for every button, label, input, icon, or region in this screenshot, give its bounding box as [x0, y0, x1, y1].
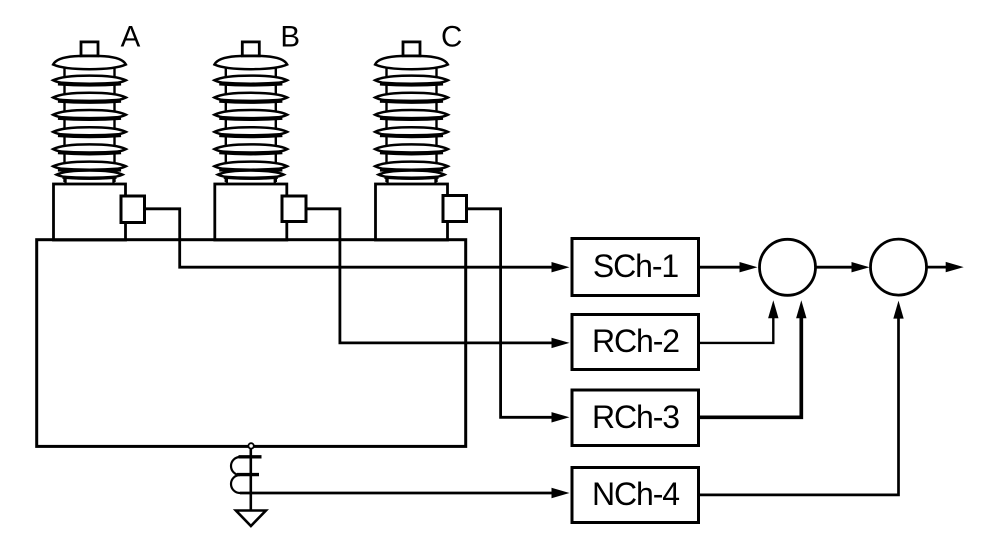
- wire from CT to block NCh-4: [240, 492, 553, 495]
- channel block RCh-2: [572, 315, 699, 370]
- svg-text:RCh-3: RCh-3: [592, 399, 679, 435]
- measuring tap sensor box on bushing B: [282, 196, 306, 222]
- output arrow: [946, 262, 964, 272]
- channel block NCh-4: [572, 468, 699, 523]
- measuring tap sensor box on bushing A: [121, 196, 145, 223]
- svg-text:B: B: [280, 20, 300, 53]
- pedestal base of bushing C: [376, 184, 448, 240]
- earth ground arrow: [236, 511, 266, 527]
- measuring tap sensor box on bushing C: [443, 196, 467, 222]
- ground lead node on tank bottom: [248, 443, 253, 448]
- ground conductor: [250, 449, 253, 511]
- output wire from adder 2: [927, 266, 948, 269]
- pedestal base of bushing B: [215, 184, 287, 240]
- arrow into adder 1 left: [740, 262, 758, 272]
- arrow RCh-2 into adder 1 bottom: [768, 300, 778, 318]
- wire from sensor C to block RCh-3: [467, 209, 554, 417]
- CT winding arc upper: [231, 457, 240, 475]
- adder circle 1: [760, 239, 816, 295]
- svg-text:C: C: [441, 20, 462, 53]
- channel block RCh-3: [572, 390, 699, 446]
- arrow RCh-3 into adder 1 bottom: [796, 300, 806, 318]
- bushing insulator A: shed stack: [53, 42, 126, 185]
- pedestal base of bushing A: [54, 184, 126, 240]
- wire from sensor A to block SCh-1: [145, 209, 554, 267]
- wire from sensor B to block RCh-2: [306, 209, 553, 343]
- arrow into NCh-4: [552, 488, 570, 498]
- svg-text:RCh-2: RCh-2: [592, 323, 679, 359]
- arrow into RCh-3: [552, 412, 570, 422]
- apparatus tank body: [37, 240, 466, 447]
- bushing insulator B: shed stack: [214, 42, 287, 185]
- arrow into RCh-2: [552, 338, 570, 348]
- adder circle 2: [871, 239, 927, 295]
- wire SCh-1 output to adder 1: [699, 266, 743, 269]
- arrow into adder 2 left: [852, 262, 870, 272]
- wire adder 1 to adder 2: [816, 266, 855, 269]
- arrow NCh-4 into adder 2 bottom: [893, 301, 903, 319]
- CT winding tick lower: [237, 473, 259, 476]
- svg-text:NCh-4: NCh-4: [592, 476, 679, 512]
- CT winding arc lower: [231, 475, 240, 493]
- wire RCh-3 output up to adder 1: [699, 316, 802, 417]
- wire NCh-4 output up to adder 2: [699, 316, 899, 495]
- channel block SCh-1: [572, 239, 699, 296]
- arrow into SCh-1: [552, 262, 570, 272]
- svg-text:SCh-1: SCh-1: [593, 248, 679, 284]
- wire RCh-2 output up to adder 1: [699, 316, 774, 343]
- CT winding tick upper: [239, 455, 262, 458]
- bushing insulator C: shed stack: [375, 42, 448, 185]
- svg-text:A: A: [121, 20, 141, 53]
